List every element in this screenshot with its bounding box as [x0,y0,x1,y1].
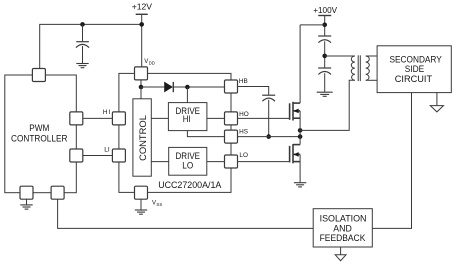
svg-text:SIDE: SIDE [405,64,425,74]
capacitor bootstrap [262,95,275,136]
wire diode cathode to HB pin [173,86,224,88]
wire PWM feedback pin to isolation box [58,199,314,228]
wire HI: PWM pin to UCC HI pin [83,117,113,119]
wire Q2 source to ground [299,154,301,182]
pin VDD [135,67,148,80]
wire isolation box to chassis ground [340,247,342,255]
svg-text:CONTROL: CONTROL [137,115,148,161]
svg-text:HO: HO [239,111,249,118]
node transformer feed junction [322,54,327,59]
pin HB [225,80,238,93]
pin LO [225,155,238,168]
node diode cathode junction [185,85,190,90]
wire +100V to Q1 drain [300,24,325,26]
transformer T1 secondary winding [366,56,370,80]
label SECONDARY SIDE CIRCUIT [390,54,442,84]
wire junction to transformer primary [325,55,355,57]
wire Q1 drain to +100V rail [299,25,301,103]
wire DRIVE HI to HO pin [207,117,225,119]
secondary side circuit box [377,46,451,93]
wire secondary bottom to secondary box [366,79,377,81]
wire +100V down [324,16,326,37]
svg-text:PWM: PWM [29,122,49,133]
ground (Q2 source) [294,183,306,187]
node +12V rail junction [139,22,144,27]
node +100V junction [322,23,327,28]
pin PWM HI out [70,112,83,125]
pin boxes [20,67,238,199]
node bypass cap junction [80,22,85,27]
svg-text:FEEDBACK: FEEDBACK [320,233,366,243]
DRIVE LO block [169,147,207,175]
pin LI [112,149,125,162]
wire diode anode [141,86,164,88]
chassis ground (secondary) [430,106,443,112]
+100V supply bar [318,15,331,17]
pin HO [225,112,238,125]
label ISOLATION AND FEEDBACK [320,213,367,243]
wire DRIVE HI bottom to HS pin [187,131,224,137]
node VDD/diode junction [139,85,144,90]
pin VSS [135,186,148,199]
label DRIVE HI [176,105,201,124]
wire cathode node down to DRIVE HI [186,87,188,103]
diode D (bootstrap) [164,82,173,93]
pin HI [112,112,125,125]
svg-text:CONTROLLER: CONTROLLER [11,133,67,144]
ground (12V bypass cap) [76,64,88,68]
CONTROL block [133,99,151,176]
ground (bulk caps) [317,92,333,96]
label DRIVE LO [176,150,201,170]
svg-text:UCC27200A/1A: UCC27200A/1A [158,180,221,190]
svg-text:HB: HB [239,78,248,85]
svg-text:+12V: +12V [132,1,153,11]
node bootstrap cap to HS [266,134,271,139]
transistor Q1 (high-side MOSFET) [290,102,301,121]
wire secondary box to chassis ground [436,93,438,106]
wire HB pin to bootstrap cap [238,87,269,95]
wire HS pin to switch node [238,136,301,138]
pin PWM GND (bottom 1) [20,186,33,199]
wire HO pin to high-side gate [238,117,290,119]
wire +12V vertical to VDD pin [141,14,143,67]
chassis ground (isolation) [335,255,346,261]
transformer T1 core [357,55,359,81]
svg-text:CIRCUIT: CIRCUIT [395,74,433,84]
wire VDD pin to diode node [140,80,142,87]
svg-text:LO: LO [239,152,248,159]
svg-text:LI: LI [104,146,110,153]
wire LO pin to low-side gate [238,161,290,163]
wire CONTROL to DRIVE HI [151,117,168,119]
capacitor bypass (12V rail) [76,24,89,63]
wire secondary top to secondary box [366,55,377,57]
DRIVE HI block [168,103,207,131]
wire VSS pin to ground [140,199,142,210]
svg-text:DD: DD [149,60,155,65]
svg-text:HI: HI [103,109,111,116]
ground (VSS) [135,210,147,214]
wire Q1 source to switch node [299,111,301,137]
pin HS [225,130,238,143]
wire secondary box down to isolation feedback [372,93,411,229]
transformer T1 primary winding [351,56,355,80]
wire CONTROL to DRIVE LO [151,161,168,163]
transistor Q2 (low-side MOSFET) [290,144,301,163]
svg-text:HS: HS [239,129,248,136]
svg-text:ISOLATION: ISOLATION [320,213,367,223]
wire +12V rail horizontal [40,24,142,68]
wire primary bottom to switch node [300,80,355,130]
wire Q2 drain elbow from switch node [299,137,301,145]
pin PWM FB (bottom 2) [51,186,64,199]
svg-text:LO: LO [182,160,193,171]
wire DRIVE LO to LO pin [207,161,225,163]
node switch node (HS) [298,134,303,139]
pin PWM VCC (top) [32,69,45,82]
capacitor bulk C2 (100V) [318,68,331,92]
svg-text:+100V: +100V [313,5,337,15]
pin labels [103,78,249,159]
ground (PWM bottom pin1) [20,199,32,209]
svg-text:HI: HI [183,113,191,124]
node transformer return [298,128,303,133]
capacitor bulk C1 (100V) [318,36,331,68]
svg-text:SS: SS [156,202,162,207]
wire LI: PWM pin to UCC LI pin [83,155,113,157]
isolation and feedback box [313,209,372,247]
UCC27200A/1A device outline box [119,73,231,192]
+12V supply bar [136,13,148,15]
pin PWM LI out [70,149,83,162]
PWM controller box [5,75,77,193]
wire VDD node down to CONTROL [140,87,142,99]
label PWM CONTROLLER [11,122,67,143]
